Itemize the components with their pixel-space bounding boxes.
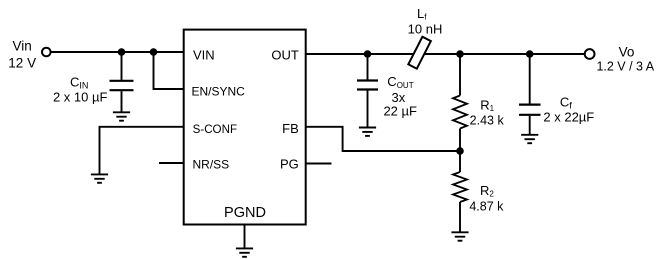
- svg-text:EN/SYNC: EN/SYNC: [192, 84, 246, 98]
- terminal Vo: [585, 49, 595, 59]
- svg-text:Vin: Vin: [13, 38, 32, 53]
- svg-text:NR/SS: NR/SS: [193, 157, 230, 171]
- ground at PGND: [236, 248, 253, 256]
- svg-text:S-CONF: S-CONF: [193, 123, 237, 136]
- svg-text:2 x 22µF: 2 x 22µF: [543, 109, 594, 124]
- svg-text:2 x 10 µF: 2 x 10 µF: [53, 90, 108, 105]
- wire S-CONF to ground: [100, 127, 184, 175]
- op-amp U1 converter block: [184, 30, 306, 225]
- svg-text:OUT: OUT: [271, 48, 299, 63]
- label Lf value: [408, 6, 443, 37]
- svg-text:FB: FB: [282, 121, 299, 136]
- ground under Cf: [521, 135, 538, 143]
- svg-text:22 µF: 22 µF: [383, 104, 417, 119]
- wire PGND stem: [244, 225, 246, 249]
- ground under R2: [451, 232, 468, 240]
- junction Cf tap: [526, 50, 534, 58]
- ground at S-CONF: [91, 174, 108, 182]
- wire PG stub: [306, 163, 332, 165]
- svg-text:PGND: PGND: [224, 205, 266, 221]
- node Vo label: [596, 45, 654, 74]
- junction R1 tap: [456, 50, 464, 58]
- ground under COUT: [359, 128, 376, 136]
- junction CIN tap: [118, 48, 126, 56]
- svg-text:Vo: Vo: [619, 45, 635, 60]
- wire OUT to Vo: [306, 53, 585, 55]
- capacitor CIN: [110, 52, 134, 112]
- inductor Lf ferrite bead: [408, 37, 431, 69]
- node Vin label: [8, 38, 36, 70]
- resistor R2: [453, 151, 467, 232]
- svg-text:PG: PG: [280, 156, 299, 171]
- resistor R1: [453, 54, 467, 151]
- svg-text:1.2 V / 3 A: 1.2 V / 3 A: [596, 60, 654, 74]
- svg-text:4.87 k: 4.87 k: [469, 199, 504, 213]
- label COUT value: [383, 74, 417, 119]
- wire FB network: [306, 127, 460, 151]
- svg-text:10 nH: 10 nH: [408, 22, 443, 37]
- label CIN value: [53, 74, 108, 104]
- terminal Vin: [42, 48, 51, 57]
- label R1 value: [470, 97, 505, 127]
- junction EN/SYNC tap: [150, 48, 158, 56]
- svg-text:2.43 k: 2.43 k: [470, 113, 505, 127]
- label Cf value: [543, 95, 594, 125]
- capacitor COUT: [357, 54, 378, 128]
- wire NR/SS stub: [159, 162, 184, 164]
- svg-text:12 V: 12 V: [8, 55, 36, 70]
- wire EN/SYNC branch: [154, 52, 184, 89]
- capacitor Cf: [519, 54, 541, 135]
- wire input Vin to VIN pin: [51, 51, 184, 53]
- ground under CIN: [113, 112, 130, 120]
- label R2 value: [469, 183, 504, 214]
- junction FB node: [456, 147, 464, 155]
- junction COUT tap: [364, 50, 372, 58]
- svg-text:VIN: VIN: [193, 48, 215, 63]
